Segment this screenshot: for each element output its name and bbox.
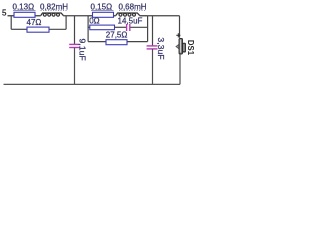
- wire junction to R4: [88, 41, 106, 43]
- wire R4 to right junction: [127, 41, 148, 43]
- resistor R2 box: [93, 12, 114, 17]
- underline dotted L1 label: [41, 9, 68, 11]
- inductor L1: [41, 13, 64, 16]
- svg-text:3,3uF: 3,3uF: [156, 37, 166, 59]
- wire top rail R1 to L1: [35, 15, 41, 17]
- svg-text:47Ω: 47Ω: [27, 18, 42, 27]
- wire input to R1: [8, 15, 15, 17]
- svg-text:0Ω: 0Ω: [89, 17, 99, 26]
- speaker plus sign: [176, 33, 180, 37]
- wire C3 shunt drop: [152, 16, 154, 46]
- wire speaker to bottom rail: [179, 54, 181, 84]
- resistor R4 box: [106, 40, 127, 45]
- wire top rail to speaker: [148, 15, 180, 17]
- wire section2 left junction vertical: [87, 16, 89, 42]
- svg-text:27,5Ω: 27,5Ω: [106, 30, 128, 39]
- wire R5 to riser: [49, 28, 66, 30]
- svg-text:9,1uF: 9,1uF: [77, 39, 87, 61]
- capacitor C2 plates: [127, 24, 130, 31]
- svg-text:5: 5: [2, 9, 7, 18]
- wire L2 to right junction: [140, 15, 148, 17]
- wire branch drop at input T: [10, 16, 12, 30]
- wire bottom return rail: [4, 83, 181, 85]
- wire C2 to right junction: [130, 26, 147, 28]
- wire C1 shunt drop: [74, 16, 76, 45]
- svg-text:DS1: DS1: [186, 40, 195, 56]
- resistor R1 box: [14, 12, 35, 17]
- inductor L2: [116, 13, 140, 16]
- capacitor C1 plates: [69, 44, 80, 47]
- wire junction to R3: [88, 26, 90, 28]
- underline solid R1 label: [13, 9, 36, 11]
- wire R2 to L2: [114, 15, 116, 17]
- underline dotted L2 label: [119, 9, 146, 11]
- wire C3 to bottom rail: [152, 49, 154, 85]
- underline solid R2 label: [91, 9, 114, 11]
- wire top rail L1 to section2: [63, 15, 88, 17]
- wire section2 right junction vertical: [147, 16, 149, 42]
- resistor R3 box: [90, 25, 115, 30]
- resistor R5 box: [27, 27, 49, 32]
- wire R3 to C2: [115, 26, 127, 28]
- wire C1 to bottom rail: [74, 48, 76, 85]
- wire junction to R2: [88, 15, 92, 17]
- wire speaker drop: [179, 16, 181, 38]
- speaker DS1 symbol: [176, 38, 186, 54]
- wire riser rejoining top rail: [65, 16, 67, 30]
- capacitor C3 plates: [147, 46, 158, 49]
- wire to R5: [11, 28, 27, 30]
